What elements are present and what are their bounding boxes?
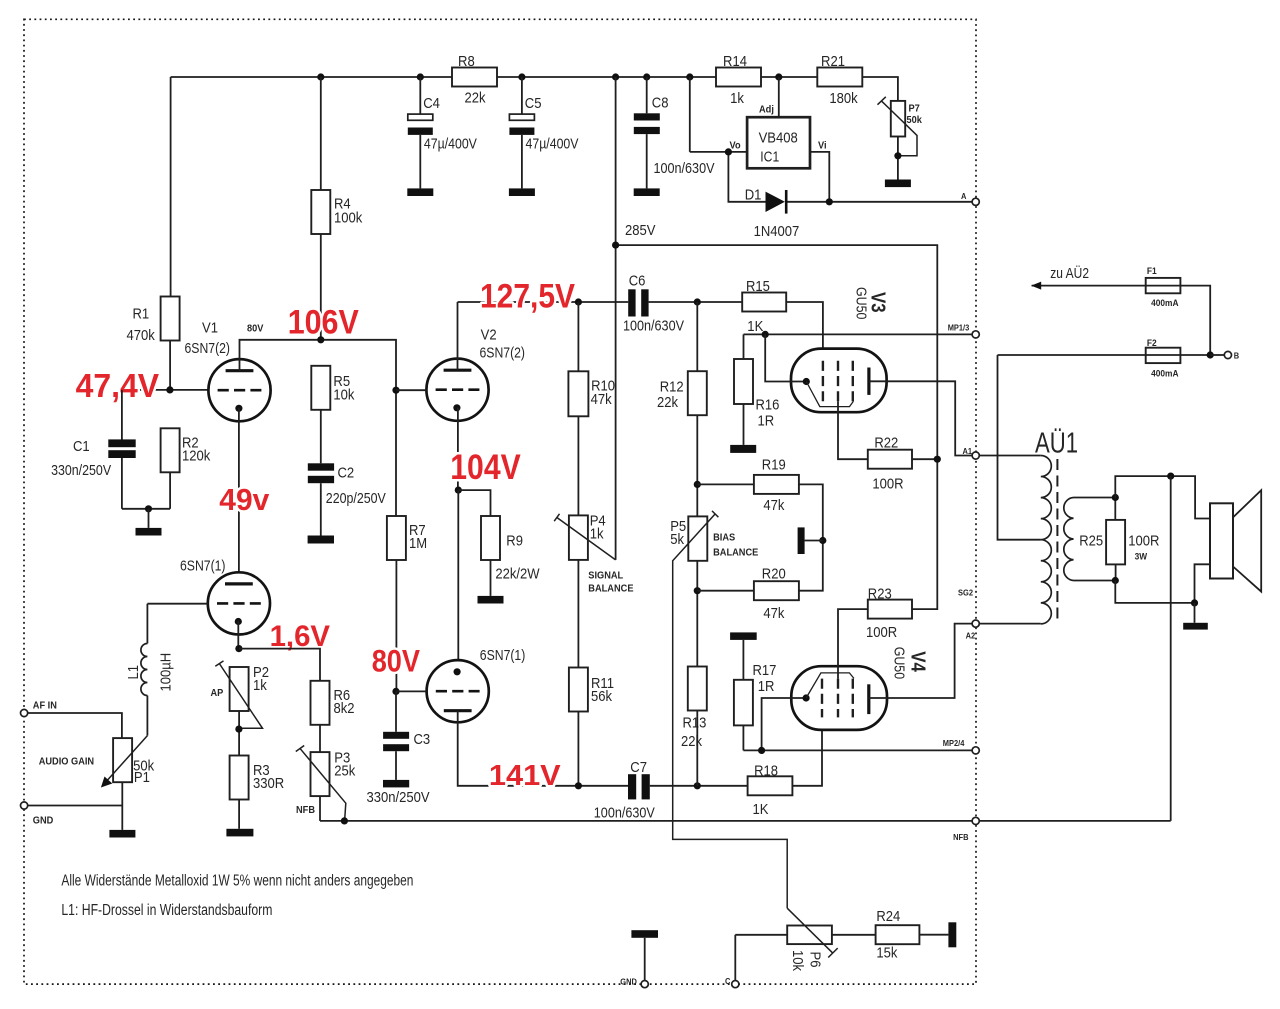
wire R4 top lead (320, 77, 322, 190)
ground at C4 (407, 188, 433, 196)
svg-text:6SN7(1): 6SN7(1) (180, 558, 226, 575)
terminal B (1224, 351, 1231, 358)
wire R10 to P4 (577, 416, 579, 515)
junction P2 wiper/R3 (235, 726, 242, 733)
potentiometer P7 (891, 101, 905, 137)
junction F1/F2/B (1207, 351, 1214, 358)
svg-text:47µ/400V: 47µ/400V (424, 136, 477, 153)
wire R12 top lead (696, 302, 698, 371)
wire AF IN line (28, 713, 122, 738)
svg-text:22k: 22k (657, 394, 678, 411)
svg-text:C8: C8 (652, 95, 669, 112)
resistor R3 (230, 756, 249, 800)
wire V1b grid lead (147, 603, 208, 605)
junction rail/285V (612, 73, 619, 80)
junction bias ground tap (819, 537, 826, 544)
wire secondary bottom (1074, 580, 1116, 582)
secondary winding of AU1 (1064, 498, 1074, 581)
wire R3 bottom lead (238, 800, 240, 829)
svg-text:100n/630V: 100n/630V (623, 318, 684, 335)
wire R15 to V3 g1 (786, 302, 823, 361)
cathode-g3 tie of V4 (806, 673, 854, 698)
svg-text:47k: 47k (763, 497, 784, 514)
ground at C1/R2 (136, 528, 162, 536)
junction secondary bottom/R25 (1112, 577, 1119, 584)
ground at R24 (948, 922, 956, 947)
svg-text:R16: R16 (756, 396, 780, 413)
junction P3 wiper/NFB (341, 817, 348, 824)
wire R4 bottom lead (320, 234, 322, 340)
wire P5 to R13 (696, 561, 698, 667)
junction rail/C8 (643, 73, 650, 80)
wire 285V feed to right and down to R23 (616, 245, 938, 609)
svg-text:NFB: NFB (953, 832, 968, 842)
wire V2 plate lead (457, 302, 459, 370)
tube V1b triode 6SN7(1) grid (217, 602, 261, 605)
svg-text:GU50: GU50 (852, 287, 869, 319)
grid g2 of V3 (837, 361, 839, 402)
wire IC1 Vi pin (810, 152, 829, 202)
wire R16 bottom lead (743, 404, 745, 445)
svg-text:100R: 100R (1128, 533, 1159, 550)
dotted page border (24, 19, 976, 984)
junction V3 cathode tap (762, 331, 769, 338)
tube V2b triode 6SN7(1) cathode (454, 668, 461, 675)
svg-text:C7: C7 (630, 759, 647, 776)
wiper tick of P2 (215, 661, 223, 666)
svg-text:BALANCE: BALANCE (588, 583, 633, 595)
primary winding of AU1 lower (1041, 540, 1052, 624)
wire V1 plate lead and 106V line (240, 340, 397, 516)
resistor R4 (311, 190, 330, 234)
svg-text:R19: R19 (762, 457, 786, 474)
capacitor C2 plate 1 (308, 463, 334, 470)
ground at C3 (383, 780, 409, 788)
wire R10 top lead (577, 302, 579, 371)
svg-text:47µ/400V: 47µ/400V (526, 136, 579, 153)
svg-text:1R: 1R (758, 412, 775, 429)
tube V2b triode 6SN7(1) (427, 660, 489, 722)
wire C3 top lead (395, 691, 397, 731)
svg-text:1K: 1K (753, 801, 769, 818)
svg-text:A: A (961, 191, 966, 201)
svg-text:R9: R9 (506, 533, 523, 550)
grid g2 of V4 (837, 679, 839, 718)
wiper of P3 (300, 748, 346, 821)
svg-text:1k: 1k (590, 525, 604, 542)
terminal A2 (972, 620, 979, 627)
wire zu AU2 arrow line (1032, 286, 1211, 355)
svg-text:A1: A1 (963, 446, 973, 456)
svg-text:BALANCE: BALANCE (713, 547, 758, 559)
speaker LS1 horn (1233, 490, 1261, 591)
grid g1 of V4 (821, 679, 823, 718)
grid g3 of V3 (852, 361, 854, 402)
junction rail/C5 (518, 73, 525, 80)
resistor R17 (734, 680, 753, 726)
resistor R12 (688, 371, 707, 415)
junction Vo/D1 (725, 148, 732, 155)
wire D1 anode from Vo (728, 152, 765, 202)
junction rail/R4 (317, 73, 324, 80)
svg-text:6SN7(2): 6SN7(2) (185, 340, 231, 357)
wire V1b cathode lead (237, 621, 239, 649)
resistor R24 (876, 925, 920, 944)
wiper tick of P6 (828, 948, 838, 957)
tube V1 triode 6SN7(2) cathode (235, 405, 242, 412)
svg-text:AP: AP (211, 687, 224, 699)
tube V1 triode 6SN7(2) plate bar (226, 369, 254, 372)
wire V2b grid lead (396, 690, 427, 692)
junction rail/C4 (417, 73, 424, 80)
wiper of P7 (881, 101, 917, 156)
capacitor C3 plate 1 (383, 732, 409, 739)
wire to terminal B (1210, 354, 1224, 356)
svg-text:L1: HF-Drossel in Widerstandsb: L1: HF-Drossel in Widerstandsbauform (61, 902, 272, 919)
wire speaker ground stem (1194, 603, 1196, 623)
svg-text:B: B (1234, 351, 1239, 361)
resistor R8 (452, 68, 497, 87)
terminal A1 (972, 452, 979, 459)
svg-text:MP1/3: MP1/3 (948, 323, 970, 333)
resistor R19 (754, 475, 799, 494)
wire NFB tap vertical (979, 476, 1170, 821)
capacitor C8 plate 2 (634, 127, 660, 134)
wire 104V to R9 (458, 490, 490, 516)
svg-text:1M: 1M (409, 535, 427, 552)
wire primary center tap (998, 355, 1041, 540)
wire V3 g2 to R22 (838, 401, 868, 459)
wiper tick of P5 (712, 511, 718, 517)
resistor R22 (868, 450, 912, 469)
wire C5 bottom lead (521, 135, 523, 189)
terminal GND input (21, 802, 28, 809)
junction P7 wiper/bottom (894, 152, 901, 159)
svg-text:127,5V: 127,5V (480, 278, 575, 316)
inductor L1 coil (141, 644, 147, 696)
wiper arrowhead of P1 (101, 777, 112, 788)
svg-text:MP2/4: MP2/4 (943, 738, 965, 748)
grid g3 of V4 (852, 679, 854, 718)
resistor R13 (688, 667, 707, 711)
svg-text:6SN7(2): 6SN7(2) (480, 345, 526, 362)
tube V2 triode 6SN7(2) (426, 359, 488, 421)
svg-text:P1: P1 (134, 769, 150, 786)
svg-text:F2: F2 (1147, 338, 1157, 349)
wire 285V vertical from rail to P4 wiper (615, 77, 617, 560)
capacitor C7 plate 1 (628, 774, 636, 799)
wire B+ top rail (171, 77, 898, 101)
svg-text:Adj: Adj (759, 103, 774, 115)
anode bar of V4 (867, 684, 870, 714)
tube V2 triode 6SN7(2) grid (436, 388, 480, 391)
junction 127.5V/R10 (575, 298, 582, 305)
ground at R17 (730, 632, 757, 640)
svg-text:100R: 100R (872, 475, 903, 492)
resistor R18 (748, 776, 793, 795)
grid g1 of V3 (822, 361, 824, 402)
wire V2b plate lead and 141V line (458, 711, 628, 786)
svg-text:C5: C5 (525, 95, 542, 112)
svg-text:C3: C3 (414, 731, 431, 748)
resistor R6 (311, 681, 330, 725)
wire R17 bottom lead (742, 725, 744, 750)
svg-text:R22: R22 (874, 435, 898, 452)
wire C1 bottom lead (121, 458, 123, 509)
svg-text:R15: R15 (746, 278, 770, 295)
wire V4 g2 to R23 (838, 609, 868, 679)
resistor R11 (569, 668, 588, 712)
wire C1 top lead (121, 390, 123, 440)
terminal AF IN (21, 709, 28, 716)
svg-text:R20: R20 (762, 566, 786, 583)
svg-text:VB408: VB408 (759, 130, 798, 147)
wire GND terminal stem (644, 938, 646, 981)
wiper tick of P4 (554, 514, 559, 521)
tube V3 GU50 envelope (791, 349, 887, 413)
wire NFB line (320, 820, 972, 822)
wire B+ rail left riser to R1 (170, 77, 172, 297)
junction rail/Vo branch (686, 73, 693, 80)
wire IC1 Adj pin to rail (778, 77, 780, 117)
capacitor C3 plate 2 (383, 744, 409, 751)
capacitor C6 plate 1 (628, 289, 635, 316)
svg-text:15k: 15k (876, 945, 897, 962)
ground at GND terminal (631, 930, 658, 938)
ground at P1 (109, 830, 135, 838)
wire C2 bottom lead (320, 483, 322, 535)
junction 127.5V/R12 (694, 298, 701, 305)
wire bias ground stem (805, 540, 823, 542)
wire V3 anode to A1 (869, 381, 972, 455)
wire P1 bottom lead (121, 782, 123, 830)
capacitor C5 positive plate (509, 114, 534, 120)
wire 141V line to R18 (650, 785, 748, 787)
wire 127.5V line (458, 301, 743, 303)
wire R17 top stem (742, 640, 744, 680)
wire P4 to R11 (577, 560, 579, 668)
junction ground link (145, 505, 152, 512)
wire R18 right to V4 g1 (792, 717, 822, 785)
svg-text:180k: 180k (829, 90, 858, 107)
terminal MP1/3 (972, 331, 979, 338)
anode bar of V3 (867, 368, 870, 395)
wire R19/R20 right link (799, 484, 823, 590)
svg-text:F1: F1 (1147, 266, 1157, 277)
wiper tick of P3 (296, 746, 304, 752)
wire R19 left lead (697, 483, 754, 485)
svg-text:100µH: 100µH (157, 653, 174, 692)
resistor R10 (568, 371, 588, 416)
resistor R25 (1106, 520, 1125, 565)
svg-text:C1: C1 (73, 438, 90, 455)
tube V2b triode 6SN7(1) grid (436, 690, 480, 693)
resistor R21 (817, 68, 862, 87)
wire R24 right lead (919, 934, 948, 936)
svg-text:1R: 1R (758, 678, 775, 695)
svg-text:IC1: IC1 (760, 148, 779, 165)
tube V4 GU50 envelope (791, 666, 887, 730)
svg-text:47k: 47k (763, 605, 784, 622)
svg-text:22k: 22k (681, 733, 702, 750)
wire 47.4V grid line (122, 389, 209, 391)
ground at bias divider (798, 527, 805, 554)
capacitor C2 plate 2 (308, 476, 334, 483)
wire C1/R2 ground link (122, 508, 170, 510)
svg-text:47k: 47k (591, 391, 612, 408)
ground at speaker (1183, 623, 1208, 630)
terminal MP2/4 (972, 747, 979, 754)
potentiometer P2 (230, 667, 249, 711)
tube V1 triode 6SN7(2) (208, 359, 270, 421)
wire P3 bottom lead (319, 796, 321, 821)
svg-text:80V: 80V (247, 323, 263, 335)
wire R25 top lead (1114, 498, 1116, 520)
svg-text:NFB: NFB (296, 804, 315, 816)
svg-text:AF IN: AF IN (33, 700, 57, 712)
wire 1.6V line to R6 (239, 649, 320, 681)
potentiometer P6 (787, 926, 832, 945)
svg-text:10k: 10k (789, 950, 806, 971)
wire V3 cathode lead (765, 334, 803, 381)
node 80V junction (392, 688, 399, 695)
wiper of P6 (787, 908, 833, 953)
svg-text:R24: R24 (876, 908, 900, 925)
junction speaker ground (1191, 599, 1198, 606)
wire P6 to R24 (832, 934, 876, 936)
svg-text:GND: GND (33, 815, 54, 827)
svg-text:1K: 1K (747, 318, 763, 335)
tube V2b triode 6SN7(1) plate bar (444, 709, 472, 712)
junction R22/285V (934, 456, 941, 463)
svg-text:zu AÜ2: zu AÜ2 (1050, 264, 1089, 282)
resistor R1 (161, 297, 180, 341)
resistor R15 (742, 293, 786, 312)
resistor R9 (481, 516, 500, 560)
wire D1 cathode to terminal A (788, 201, 973, 203)
svg-text:8k2: 8k2 (334, 700, 355, 717)
wire C4 bottom lead (419, 135, 421, 189)
svg-text:R23: R23 (868, 585, 892, 602)
wire R20 left lead (697, 590, 754, 592)
svg-text:100n/630V: 100n/630V (594, 805, 655, 822)
svg-text:R21: R21 (821, 53, 845, 70)
svg-text:C6: C6 (629, 273, 646, 290)
potentiometer P4 (569, 515, 588, 560)
wire C4 top lead (419, 77, 421, 114)
svg-text:56k: 56k (591, 688, 612, 705)
svg-text:330R: 330R (253, 775, 284, 792)
speaker LS1 body (1210, 503, 1233, 578)
wire R6 to P3 (319, 725, 321, 752)
svg-text:50k: 50k (907, 114, 923, 126)
svg-text:Vi: Vi (818, 140, 827, 152)
svg-text:330n/250V: 330n/250V (51, 462, 111, 479)
junction D1/Vi (826, 198, 833, 205)
capacitor C7 plate 2 (642, 774, 650, 799)
wire V1 cathode to V1b plate (238, 408, 240, 585)
tube V2 triode 6SN7(2) cathode (453, 404, 460, 411)
svg-text:100n/630V: 100n/630V (654, 160, 715, 177)
svg-text:400mA: 400mA (1151, 298, 1179, 309)
svg-text:SG2: SG2 (958, 588, 973, 598)
wire R1 bottom lead (169, 341, 171, 390)
terminal A (972, 198, 979, 205)
svg-text:SIGNAL: SIGNAL (588, 570, 623, 582)
tube V1b triode 6SN7(1) (208, 572, 270, 634)
svg-text:25k: 25k (334, 763, 355, 780)
primary winding of AU1 upper (1041, 456, 1052, 540)
svg-text:A2: A2 (966, 631, 976, 641)
svg-text:330n/250V: 330n/250V (367, 789, 430, 806)
svg-text:5k: 5k (670, 531, 684, 548)
resistor R20 (754, 581, 799, 600)
junction 141V/R13 (694, 782, 701, 789)
svg-text:R17: R17 (753, 662, 777, 679)
svg-text:V2: V2 (481, 327, 497, 344)
svg-text:80V: 80V (372, 643, 420, 679)
wire speaker bottom feed (1115, 564, 1210, 603)
node 1.6V junction (235, 645, 242, 652)
capacitor C4 negative plate (408, 128, 433, 135)
ground at R16 (730, 445, 756, 453)
resistor R2 (161, 428, 180, 472)
terminal NFB (972, 817, 979, 824)
svg-text:120k: 120k (182, 447, 211, 464)
wire A2 line to primary bottom (979, 623, 1041, 625)
resistor R14 (716, 68, 761, 87)
svg-text:100k: 100k (334, 210, 363, 227)
svg-text:220p/250V: 220p/250V (326, 490, 386, 507)
svg-text:104V: 104V (450, 448, 521, 487)
wire V4 cathode lead (762, 698, 807, 750)
wire V4 anode to A2 (869, 624, 972, 698)
wire ground stem (148, 509, 150, 528)
svg-text:106V: 106V (288, 304, 359, 342)
wire R2 bottom lead (169, 472, 171, 509)
svg-text:R1: R1 (133, 305, 150, 322)
wire A1 line to primary (979, 455, 1041, 457)
wire R25 bottom lead (1115, 564, 1117, 580)
node 104V junction (455, 487, 462, 494)
wire R13 bottom lead (696, 711, 698, 786)
wire R11 bottom lead (577, 712, 579, 786)
svg-text:P6: P6 (806, 952, 823, 968)
ground at C5 (509, 188, 535, 196)
svg-text:22k/2W: 22k/2W (495, 566, 540, 583)
tube V1b triode 6SN7(1) cathode (235, 618, 242, 625)
svg-text:D1: D1 (745, 187, 762, 204)
wiper of P5 descending to P6 (673, 514, 788, 908)
resistor R5 (311, 366, 330, 410)
svg-text:285V: 285V (625, 222, 656, 239)
svg-text:V4: V4 (906, 651, 928, 672)
svg-text:1N4007: 1N4007 (754, 223, 800, 240)
svg-text:49v: 49v (219, 483, 269, 517)
diode D1 cathode bar (785, 190, 788, 214)
inductor L1 top lead (146, 604, 148, 644)
core of AU1 (1056, 459, 1058, 621)
junction NFB tap (1167, 473, 1174, 480)
wire GND line (28, 805, 123, 807)
wire P6 left lead to C (735, 935, 787, 981)
wire MP1/3 line (744, 334, 973, 359)
capacitor C1 plate 1 (108, 439, 135, 447)
cathode dot of V4 (803, 694, 810, 701)
capacitor C6 plate 2 (641, 289, 648, 316)
junction rail/Adj (775, 73, 782, 80)
svg-text:22k: 22k (465, 89, 486, 106)
